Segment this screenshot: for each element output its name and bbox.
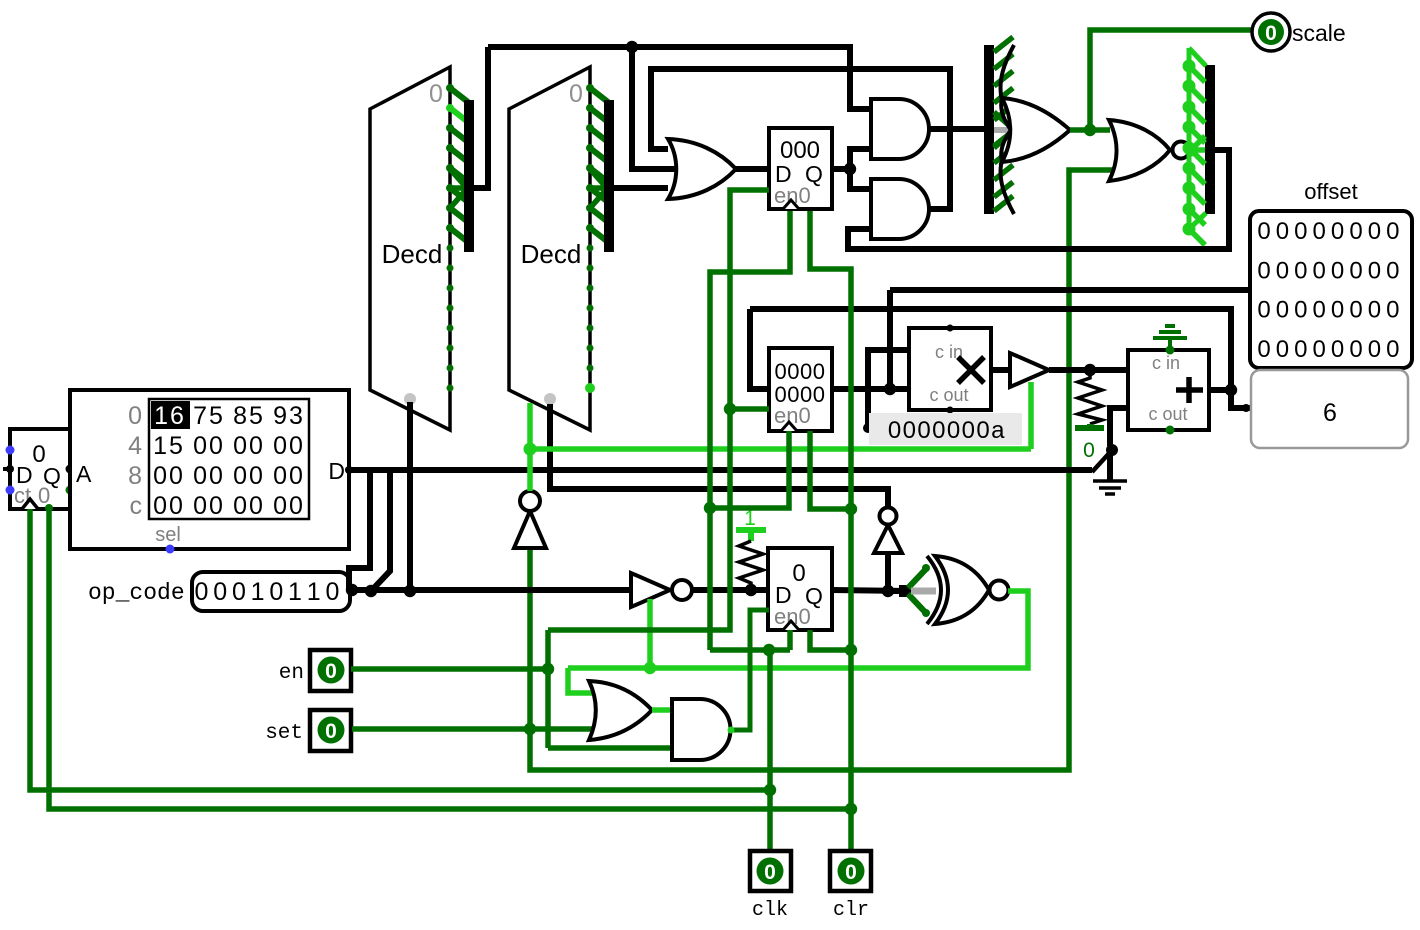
decoder U3 body <box>509 67 590 430</box>
svg-text:0: 0 <box>1083 439 1095 462</box>
svg-text:0: 0 <box>1368 297 1381 324</box>
wire INV1 enable <box>647 599 653 668</box>
svg-text:0: 0 <box>1313 336 1326 363</box>
svg-text:0: 0 <box>1294 336 1307 363</box>
splitter SP1 fan at output <box>450 169 467 208</box>
svg-text:0: 0 <box>429 80 443 108</box>
or-gate OR16 wide <box>1001 45 1070 214</box>
svg-text:85: 85 <box>233 402 265 430</box>
resistor R1 <box>739 541 763 590</box>
wire DRV1 output to adder <box>1049 367 1128 373</box>
wire AND1 output to splitter SP3 <box>929 126 984 132</box>
node set-net junction at OR2 line <box>524 723 536 735</box>
svg-text:0: 0 <box>1257 336 1270 363</box>
svg-text:0: 0 <box>213 578 227 606</box>
decoder U2 output wires to splitter <box>446 84 468 242</box>
decoder U3 select pin <box>544 393 556 405</box>
svg-text:00: 00 <box>153 462 185 490</box>
node DRV1 output junction <box>1084 364 1096 376</box>
wire clk rail <box>30 509 770 790</box>
splitter SP3 bar <box>984 45 994 214</box>
svg-text:set: set <box>265 722 303 745</box>
wire multiplier a-input tap <box>868 350 909 428</box>
wire D-net diagonal jog <box>372 470 390 590</box>
multiplier U6 body <box>909 328 991 410</box>
svg-text:D: D <box>328 458 345 484</box>
wire switch to ground <box>1107 450 1113 480</box>
svg-text:0: 0 <box>1276 257 1289 284</box>
svg-text:00: 00 <box>193 462 225 490</box>
svg-text:0: 0 <box>195 578 209 606</box>
svg-text:sel: sel <box>155 524 181 546</box>
splitter SP4 bar <box>1205 65 1215 214</box>
node clr dff2 junction <box>845 644 857 656</box>
svg-text:0: 0 <box>1386 218 1399 245</box>
op_code label <box>88 580 185 606</box>
ROM U1 address highlight cell <box>151 401 190 430</box>
svg-text:0: 0 <box>764 861 776 884</box>
svg-text:16: 16 <box>154 402 186 430</box>
svg-text:0: 0 <box>1265 22 1277 45</box>
svg-text:0: 0 <box>845 861 857 884</box>
svg-text:clk: clk <box>752 899 788 922</box>
svg-text:0: 0 <box>1313 297 1326 324</box>
ROM U1 body <box>70 390 349 549</box>
splitter SP2 fan at output <box>590 169 607 208</box>
counter CT1 body <box>10 429 70 509</box>
svg-text:4: 4 <box>128 432 142 460</box>
svg-text:0: 0 <box>947 417 960 444</box>
svg-text:0: 0 <box>325 660 337 683</box>
svg-text:0: 0 <box>1331 336 1344 363</box>
svg-text:75: 75 <box>193 402 225 430</box>
wire clk segment y650 <box>710 647 790 653</box>
svg-text:000: 000 <box>780 137 820 164</box>
svg-text:0: 0 <box>1276 297 1289 324</box>
clk label <box>752 899 788 922</box>
wire to display-6 <box>1231 390 1253 412</box>
wire en to AND3 <box>548 745 672 751</box>
wire OR16 output <box>1070 127 1110 133</box>
svg-text:0: 0 <box>903 417 916 444</box>
wire en vertical <box>545 630 551 748</box>
supply-1 symbol <box>736 507 766 541</box>
wire en to register-enables <box>548 190 769 630</box>
splitter SP5 input stub <box>888 588 906 594</box>
wire DFF2 clock stub <box>787 630 793 650</box>
wire clr rail <box>49 509 851 809</box>
svg-text:0: 0 <box>1349 257 1362 284</box>
svg-text:93: 93 <box>273 402 305 430</box>
tri-state driver DRV1 <box>1010 353 1049 387</box>
wire DFF2 pin2 to clr <box>810 630 851 650</box>
wire DRV2 output up to decoder2 <box>527 403 533 491</box>
svg-text:00: 00 <box>153 492 185 520</box>
clr label <box>833 899 869 922</box>
svg-text:0: 0 <box>325 578 339 606</box>
ROM U1 row and data text <box>128 402 305 520</box>
wire loop to OR2 input <box>568 668 593 693</box>
resistor R2 <box>1078 370 1102 424</box>
wire D-net drop to op_code <box>349 470 370 590</box>
display D6 box <box>1251 370 1408 448</box>
wire multiplier output <box>991 367 1010 373</box>
svg-text:0: 0 <box>1368 336 1381 363</box>
wire rail1 from SP1 to AND1 <box>488 47 871 109</box>
svg-text:1: 1 <box>288 578 302 606</box>
svg-text:offset: offset <box>1304 179 1357 204</box>
display offset box <box>1250 211 1412 368</box>
multiplier U6 cin pin <box>947 325 954 332</box>
svg-text:op_code: op_code <box>88 580 185 606</box>
flip-flop DFF1 pin2 dot <box>807 206 814 213</box>
svg-text:0: 0 <box>1313 257 1326 284</box>
svg-text:0: 0 <box>1257 297 1270 324</box>
wire clk to input box <box>767 790 774 857</box>
node clk dff2 junction <box>763 644 775 656</box>
decoder U2 unconnected output pins <box>447 245 454 392</box>
svg-text:0: 0 <box>569 80 583 108</box>
counter second bottom pin <box>45 504 53 512</box>
inverting driver INV1 <box>631 573 692 607</box>
multiplier U6 cout pin <box>947 407 954 414</box>
svg-text:Decd: Decd <box>521 239 582 269</box>
wire adder b-input from switch <box>1110 408 1128 446</box>
output indicator scale <box>1252 13 1290 51</box>
svg-text:0: 0 <box>1276 218 1289 245</box>
ground symbol below switch <box>1093 481 1127 494</box>
decoder U3 unconnected output pins <box>585 245 595 394</box>
svg-text:0: 0 <box>932 417 945 444</box>
svg-text:0: 0 <box>1294 297 1307 324</box>
adder U7 body <box>1128 350 1209 430</box>
svg-text:0: 0 <box>128 402 142 430</box>
counter CT1 D input pin <box>3 446 15 495</box>
wire AND3 output to DFF2 en <box>728 610 770 734</box>
wire clr vertical <box>810 211 851 809</box>
wire set input to OR2 <box>352 726 593 732</box>
svg-text:0: 0 <box>1331 297 1344 324</box>
ROM U1 pin labels <box>76 458 345 546</box>
node REG2 clock junction <box>704 502 716 514</box>
wire clk up to DFF1 <box>710 211 790 650</box>
xnor-gate XNOR1 <box>927 556 1009 624</box>
counter CT1 output pin / node A-addr <box>66 465 75 495</box>
input clr box <box>830 851 871 891</box>
svg-text:00: 00 <box>193 432 225 460</box>
wire op_code to inverter <box>350 587 631 593</box>
svg-text:0: 0 <box>1294 218 1307 245</box>
flip-flop DFF1 body <box>769 128 832 209</box>
svg-text:0: 0 <box>1313 218 1326 245</box>
node DFF2 D junction <box>745 584 757 596</box>
svg-text:c in: c in <box>1152 353 1180 373</box>
flip-flop DFF2 pin2 dot <box>807 627 814 634</box>
node rail1-OR junction <box>626 41 638 53</box>
svg-text:scale: scale <box>1292 20 1346 46</box>
wire clr to input box <box>848 809 855 857</box>
wire to scale output <box>1090 30 1252 130</box>
svg-text:0: 0 <box>232 578 246 606</box>
node DRV2 output junction <box>524 443 537 456</box>
svg-text:0: 0 <box>1257 257 1270 284</box>
wire offset input <box>890 287 1250 293</box>
node en junction <box>542 663 554 675</box>
node op_code junction 3 <box>404 585 416 597</box>
svg-text:0: 0 <box>1276 336 1289 363</box>
input set box <box>310 710 351 751</box>
tri-state driver DRV2 <box>514 491 546 548</box>
svg-text:0: 0 <box>1331 257 1344 284</box>
offset label <box>1304 179 1357 204</box>
node REG2 Q junction <box>884 383 896 395</box>
decoder U2 select pin <box>404 393 416 405</box>
wire set-net to NOR input <box>530 170 1113 770</box>
splitter SP1 bar <box>464 100 474 252</box>
svg-text:en: en <box>279 662 304 685</box>
svg-text:0: 0 <box>888 417 901 444</box>
node clr reg2 junction <box>845 503 857 515</box>
svg-text:1: 1 <box>307 578 321 606</box>
tri-state driver DRV3 <box>874 508 902 554</box>
decoder U3 output wires to splitter <box>586 84 608 242</box>
and-gate AND2 <box>871 179 929 239</box>
adder cin pin <box>1166 346 1175 355</box>
ROM U1 sel pin <box>166 545 175 554</box>
svg-text:00: 00 <box>273 432 305 460</box>
svg-text:0: 0 <box>1386 257 1399 284</box>
wire DRV3 output to decoder2 select <box>550 404 888 508</box>
splitter SP2 bar <box>604 100 614 252</box>
wire adder-out to REG2 D <box>750 309 1231 390</box>
wire adder output <box>1209 387 1231 393</box>
ROM U1 data table frame <box>149 399 309 519</box>
svg-text:0: 0 <box>1386 297 1399 324</box>
svg-text:a: a <box>991 417 1005 444</box>
op_code bits text <box>195 578 340 606</box>
svg-text:c out: c out <box>929 385 968 405</box>
svg-text:0: 0 <box>1368 257 1381 284</box>
svg-text:Decd: Decd <box>382 239 443 269</box>
svg-text:A: A <box>76 461 92 487</box>
svg-text:00: 00 <box>273 492 305 520</box>
svg-text:1: 1 <box>251 578 265 606</box>
wire INV1 output to DFF2 <box>692 587 768 593</box>
decoder U2 body <box>370 67 450 430</box>
and-gate AND1 <box>871 99 929 159</box>
scale label <box>1292 20 1346 46</box>
svg-text:00: 00 <box>233 462 265 490</box>
svg-text:0: 0 <box>962 417 975 444</box>
node DFF2 Q junction <box>882 585 894 597</box>
node clr junction <box>845 803 857 815</box>
svg-text:c: c <box>130 492 143 520</box>
tooltip value 0000000a <box>869 413 1022 445</box>
wire DFF1 Q to AND1 input <box>850 149 871 169</box>
svg-text:0: 0 <box>976 417 989 444</box>
wire DRV3 input <box>885 553 891 591</box>
register REG2 body <box>769 348 832 431</box>
svg-text:0: 0 <box>1349 297 1362 324</box>
splitter SP3 high-z stub <box>994 127 1013 133</box>
svg-text:8: 8 <box>128 462 142 490</box>
splitter SP4 output wire <box>848 150 1229 249</box>
svg-text:6: 6 <box>1323 399 1337 427</box>
switch S1 lever <box>1092 444 1118 472</box>
node OR16 output junction <box>1084 124 1096 136</box>
splitter SP4 fan wires <box>1189 48 1206 245</box>
svg-text:0: 0 <box>792 560 805 587</box>
wire DFF1 Q to AND2 input <box>850 169 871 189</box>
wire REG2 clock <box>710 431 789 508</box>
or-gate OR2 <box>589 681 652 740</box>
or-gate OR1 <box>668 139 736 199</box>
splitter SP1 bus output wire <box>474 47 488 188</box>
wire clk vertical to DFF2 <box>767 650 773 790</box>
wire XNOR output loop <box>568 591 1028 668</box>
supply-0 symbol <box>1075 424 1104 462</box>
svg-text:15: 15 <box>153 432 185 460</box>
node op_code junction 1 <box>346 584 358 596</box>
register REG2 pin2 dot <box>807 428 814 435</box>
node DFF1 Q junction <box>844 163 856 175</box>
op_code DIP input box <box>192 572 350 611</box>
splitter SP5 input square <box>899 585 911 597</box>
svg-text:c out: c out <box>1148 404 1187 424</box>
input clk box <box>750 851 791 891</box>
wire REG2 en input <box>730 406 769 412</box>
ROM U1 D output pin <box>345 466 353 474</box>
wire DRV1 enable <box>1028 382 1034 449</box>
splitter SP3 fan wires <box>994 37 1013 211</box>
wire REG2 Q output <box>832 386 909 392</box>
splitter SP4 middle pin dot <box>1185 144 1198 157</box>
svg-text:0: 0 <box>917 417 930 444</box>
adder cout pin <box>1166 426 1175 435</box>
svg-text:0: 0 <box>1386 336 1399 363</box>
wire REG2 D drop <box>750 309 769 389</box>
node adder output junction <box>1225 384 1237 396</box>
wire bright rail y449 <box>530 446 1031 452</box>
svg-text:00: 00 <box>233 432 265 460</box>
wire REG2 pin2 to clr <box>810 431 851 509</box>
wire DFF2 Q output <box>832 590 906 591</box>
svg-text:0: 0 <box>1349 336 1362 363</box>
ground symbol above adder <box>1153 326 1187 350</box>
svg-text:clr: clr <box>833 899 869 922</box>
svg-text:00: 00 <box>193 492 225 520</box>
svg-text:00: 00 <box>273 462 305 490</box>
wire OR2 output <box>652 707 672 713</box>
wire REG2-Q up to offset wire <box>887 290 893 389</box>
nor-gate NOR1 <box>1109 120 1190 181</box>
svg-text:0: 0 <box>1368 218 1381 245</box>
and-gate AND3 <box>672 699 731 760</box>
node XNOR-loop junction <box>644 662 656 674</box>
splitter SP3 fan at input <box>994 112 1012 148</box>
en label <box>279 662 304 685</box>
splitter SP2 bus output wire <box>614 185 668 191</box>
flip-flop DFF2 body <box>768 548 832 630</box>
svg-text:0: 0 <box>1257 218 1270 245</box>
svg-text:0: 0 <box>1349 218 1362 245</box>
node REG2 en junction <box>724 403 736 415</box>
svg-text:0000: 0000 <box>775 359 826 384</box>
wire rail2 AND2 output loop <box>651 69 950 209</box>
svg-text:0: 0 <box>1331 218 1344 245</box>
wire rail1 branch to OR1 input <box>632 47 676 169</box>
svg-text:0: 0 <box>325 720 337 743</box>
wire decoder1 select to op_code net <box>407 402 413 591</box>
display offset digits <box>1257 218 1399 363</box>
node op_code junction 2 <box>365 585 377 597</box>
splitter SP5 fan <box>908 564 936 617</box>
wire en input <box>351 666 548 672</box>
node clk junction <box>764 784 776 796</box>
wire DFF1 Q output <box>832 166 850 172</box>
svg-text:00: 00 <box>233 492 265 520</box>
splitter SP4 pin dots <box>1183 60 1196 236</box>
set label <box>265 722 303 745</box>
input en box <box>310 650 351 691</box>
svg-text:0: 0 <box>1294 257 1307 284</box>
svg-text:0: 0 <box>269 578 283 606</box>
wire OR1 output to DFF1 <box>735 166 769 172</box>
node mult-a dead end <box>863 423 873 433</box>
wire ROM D long bus <box>349 467 1092 473</box>
